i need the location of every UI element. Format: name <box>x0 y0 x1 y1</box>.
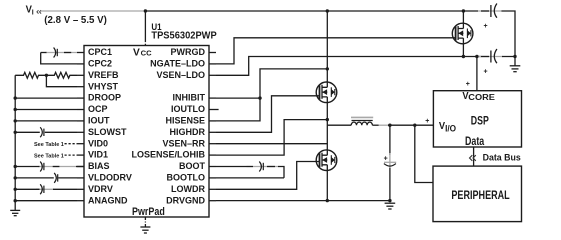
svg-text:I: I <box>32 10 34 17</box>
wire VSEN-RR to switch node <box>216 143 327 145</box>
capacitor C2 (between CPC1 and CPC2) <box>54 48 58 58</box>
wire ANAGND <box>15 200 77 202</box>
svg-text:BOOT: BOOT <box>179 161 206 171</box>
junction dot peripheral tap <box>413 124 416 127</box>
wire CPC2 loop <box>41 53 77 64</box>
U1 right pin stubs <box>209 53 219 201</box>
wire Q3 source to DRVGND rail <box>326 171 328 201</box>
svg-text:VHYST: VHYST <box>88 81 119 91</box>
junction dot VCORE tap <box>475 55 478 58</box>
svg-text:PwrPad: PwrPad <box>132 206 165 218</box>
wire VDRV <box>15 188 77 190</box>
svg-text:VSEN–LDO: VSEN–LDO <box>156 70 205 80</box>
wire top rail to right corner and down <box>502 11 516 57</box>
svg-text:BOOTLO: BOOTLO <box>167 173 206 183</box>
svg-text:TPS56302PWP: TPS56302PWP <box>151 31 217 42</box>
wire BOOT with bootstrap cap <box>216 167 284 178</box>
svg-text:HISENSE: HISENSE <box>165 116 205 126</box>
capacitor C8 (output bulk) branch <box>384 125 397 200</box>
wire VIO rail grey at C7 <box>478 56 503 58</box>
capacitor C5 (VLDODRV) <box>54 173 58 183</box>
wire HISENSE <box>216 98 260 121</box>
svg-text:CPC2: CPC2 <box>88 59 112 69</box>
U1 left pin stubs <box>77 53 84 201</box>
wire left analog bus <box>14 75 16 210</box>
DSP block <box>433 91 521 148</box>
wire Q2 source to switch node <box>326 103 328 150</box>
transistor Q2 (high-side N-MOSFET) <box>316 82 337 103</box>
wire HIGHDR to Q2 gate <box>216 96 320 133</box>
wire OCP <box>15 109 77 111</box>
svg-text:IOUT: IOUT <box>88 116 110 126</box>
wire INHIBIT to VI <box>216 69 327 98</box>
svg-text:SLOWST: SLOWST <box>88 127 127 137</box>
PERIPHERAL block <box>433 166 522 222</box>
junction dot C8 to DRVGND rail <box>388 199 391 202</box>
svg-text:+: + <box>384 156 388 163</box>
svg-text:VDRV: VDRV <box>88 184 113 194</box>
capacitor C4 (BIAS) <box>40 162 44 172</box>
junction dot INHIBIT to drain <box>326 67 329 70</box>
svg-text:(2.8 V – 5.5 V): (2.8 V – 5.5 V) <box>44 15 106 26</box>
node data bus marker <box>470 155 476 161</box>
wire VLDODRV <box>15 177 77 179</box>
junction dot VI/HS-drain <box>326 9 329 12</box>
wire IOUT <box>15 120 77 122</box>
svg-text:DRVGND: DRVGND <box>166 195 205 205</box>
node VI label <box>26 5 107 26</box>
svg-text:ANAGND: ANAGND <box>88 195 128 205</box>
svg-text:CC: CC <box>141 49 152 58</box>
wire VCC drop to U1 <box>144 11 146 46</box>
wire VI top rail black segment <box>145 10 478 12</box>
wire DROOP <box>15 97 77 99</box>
svg-text:+: + <box>425 118 429 125</box>
transistor Q3 (low-side N-MOSFET) <box>316 150 337 171</box>
resistor R1 (VREFB divider upper) <box>15 72 46 78</box>
svg-text:PWRGD: PWRGD <box>171 47 206 57</box>
svg-text:LOWDR: LOWDR <box>171 184 205 194</box>
junction dot output cap tap <box>388 124 391 127</box>
svg-text:VID0: VID0 <box>88 138 108 148</box>
svg-text:IOUTLO: IOUTLO <box>171 104 205 114</box>
wire data bus DSP to PERIPHERAL <box>473 147 475 166</box>
wire top rail black dash before C1 <box>481 10 489 12</box>
wire VI top rail grey segment <box>41 10 146 12</box>
node VID0 See Table 1 <box>34 142 77 148</box>
ground (left analog bus) <box>10 210 20 215</box>
junction dot Q3 source/DRVGND <box>326 199 329 202</box>
wire BOOTLO <box>216 177 284 179</box>
wire SLOWST <box>15 131 77 133</box>
wire VCORE rail to DSP VIO pin <box>388 124 433 126</box>
junction dot VI/VCC <box>144 9 147 12</box>
svg-text:VLDODRV: VLDODRV <box>88 173 132 183</box>
resistor R2 (VREFB divider lower) <box>46 72 77 78</box>
wire DRVGND rail <box>216 200 390 202</box>
svg-text:LOSENSE/LOHIB: LOSENSE/LOHIB <box>131 150 205 160</box>
svg-text:+: + <box>484 23 488 30</box>
capacitor C7 (LDO output cap) <box>484 49 497 76</box>
svg-text:DROOP: DROOP <box>88 93 121 103</box>
svg-text:+: + <box>484 69 488 76</box>
svg-text:See Table 1: See Table 1 <box>34 153 64 159</box>
ground (top right) <box>510 66 521 72</box>
inductor L1 <box>327 117 388 125</box>
junction dot VI/LDO-drain <box>462 9 465 12</box>
U1 right pin labels <box>131 47 205 205</box>
junction dot VREFB divider <box>45 74 48 77</box>
wire LOWDR to Q3 gate <box>216 162 320 190</box>
wire VHYST tap <box>46 75 77 86</box>
capacitor C6 (VDRV) <box>40 184 44 194</box>
ground (PwrPad) <box>140 217 150 233</box>
svg-text:I/O: I/O <box>445 124 456 134</box>
svg-text:VSEN–RR: VSEN–RR <box>162 138 205 148</box>
wire VIO to PERIPHERAL <box>415 125 433 182</box>
junction dot LDO source <box>462 55 465 58</box>
capacitor C9 (bootstrap) <box>259 162 263 172</box>
U1 left pin labels <box>88 47 132 205</box>
wire LOSENSE/LOHIB to switch node <box>216 120 327 156</box>
junction dots on left bus <box>14 96 17 202</box>
wire top rail grey at input cap C1 <box>478 10 502 12</box>
capacitor C1 (input bulk cap on VI rail) <box>484 4 497 31</box>
wire VCORE drop to DSP <box>476 57 478 91</box>
svg-text:CORE: CORE <box>468 93 495 102</box>
svg-text:PERIPHERAL: PERIPHERAL <box>451 188 509 202</box>
transistor Q1 (LDO pass N-MOSFET) <box>452 23 473 44</box>
wire Q1 drain to VI rail <box>462 11 464 23</box>
svg-text:Data: Data <box>465 134 484 148</box>
svg-text:+: + <box>466 81 470 88</box>
junction dot switch/LOSENSE <box>326 118 329 121</box>
svg-text:CPC1: CPC1 <box>88 47 112 57</box>
wire CPC1 to capacitor loop <box>46 52 78 54</box>
svg-text:BIAS: BIAS <box>88 161 110 171</box>
VI input arrow <box>37 10 41 13</box>
wire VSEN-LDO to VIO rail <box>216 57 481 76</box>
svg-text:OCP: OCP <box>88 104 108 114</box>
svg-text:HIGHDR: HIGHDR <box>170 127 206 137</box>
IC U1 TPS56302PWP controller box <box>84 22 217 218</box>
capacitor C3 (SLOWST) <box>40 127 44 137</box>
svg-text:See Table 1: See Table 1 <box>34 142 64 148</box>
svg-text:Data Bus: Data Bus <box>483 153 521 163</box>
svg-text:VID1: VID1 <box>88 150 108 160</box>
wire C7 to ground corner <box>502 57 515 66</box>
svg-text:INHIBIT: INHIBIT <box>173 93 206 103</box>
svg-text:DSP: DSP <box>471 113 489 127</box>
svg-text:VREFB: VREFB <box>88 70 119 80</box>
junction dot INHIBIT/HISENSE <box>258 96 261 99</box>
wire Q2 drain to VI rail <box>326 11 328 82</box>
node VID1 See Table 1 <box>34 153 77 159</box>
wire Q1 source to VIO rail <box>462 44 464 57</box>
wire BIAS <box>15 166 84 168</box>
junction dot C7 right <box>513 55 516 58</box>
wire VIO rail black dash before C7 <box>481 56 489 58</box>
wire NGATE-LDO to LDO gate <box>216 38 456 64</box>
svg-text:NGATE–LDO: NGATE–LDO <box>150 59 205 69</box>
svg-text:V: V <box>133 46 140 58</box>
ground (power stage) <box>385 203 396 209</box>
